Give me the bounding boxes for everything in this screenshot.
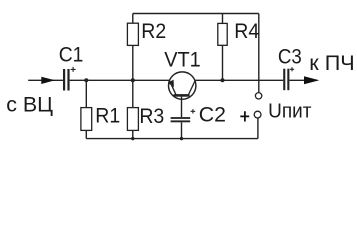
svg-text:с ВЦ: с ВЦ <box>6 94 53 117</box>
svg-text:R1: R1 <box>95 105 120 128</box>
svg-text:C1: C1 <box>59 44 84 67</box>
svg-text:Uпит: Uпит <box>268 100 311 123</box>
svg-text:R3: R3 <box>139 105 164 128</box>
svg-text:C3: C3 <box>278 46 302 69</box>
svg-text:C2: C2 <box>199 103 226 126</box>
svg-text:R4: R4 <box>234 21 259 44</box>
svg-text:к ПЧ: к ПЧ <box>309 51 354 75</box>
svg-text:VT1: VT1 <box>164 48 201 72</box>
svg-text:R2: R2 <box>141 21 166 44</box>
